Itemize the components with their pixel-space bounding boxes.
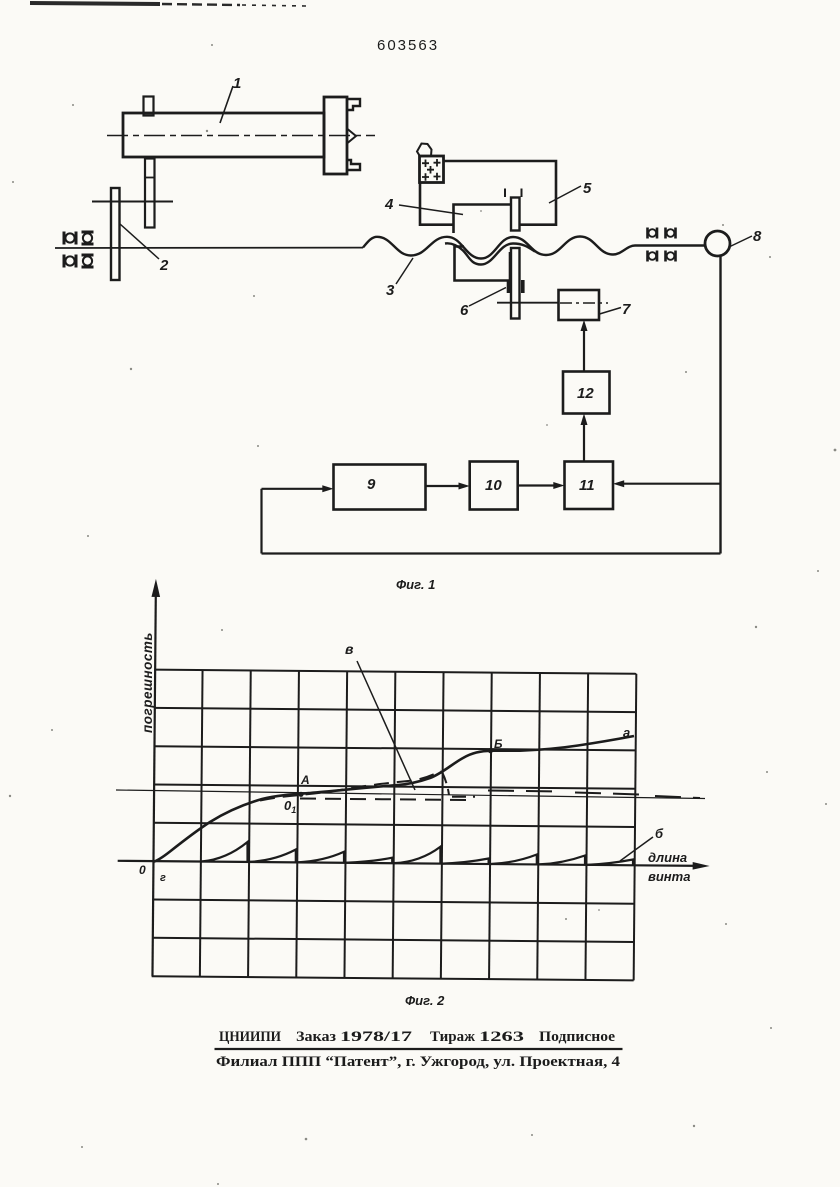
bearing L3 xyxy=(64,255,76,268)
label 6 leader xyxy=(469,288,506,307)
label 4 leader xyxy=(399,205,463,215)
feedback loop into 9 xyxy=(262,485,721,553)
scan artifact top line xyxy=(30,3,306,6)
cylinder 1 body xyxy=(123,113,324,157)
lower bar xyxy=(511,248,520,319)
tailstock center point xyxy=(348,129,357,143)
gear axis line xyxy=(92,201,173,203)
label 2 leader xyxy=(120,224,159,259)
svg-text:1263: 1263 xyxy=(479,1029,524,1045)
box 9 xyxy=(334,465,426,510)
svg-text:5: 5 xyxy=(583,180,592,197)
tooth 6 xyxy=(442,859,488,865)
label 7 leader xyxy=(600,308,622,315)
svg-text:603563: 603563 xyxy=(377,37,439,54)
spindle tick right xyxy=(521,189,523,198)
svg-text:б: б xyxy=(655,826,664,841)
grid xyxy=(152,670,637,981)
arrow 9 to 10 xyxy=(426,483,470,490)
svg-text:1978/17: 1978/17 xyxy=(340,1029,413,1045)
tooth 9 xyxy=(587,860,633,866)
circle 8 xyxy=(705,231,730,256)
element with plus marks xyxy=(420,156,444,183)
leader b xyxy=(620,837,653,861)
svg-text:7: 7 xyxy=(622,301,631,318)
block 7 centerline xyxy=(560,302,608,304)
thin reference line xyxy=(116,790,705,799)
tailstock top claw xyxy=(347,99,360,110)
screw double line section xyxy=(445,243,535,264)
line from circle 8 down xyxy=(719,256,721,554)
svg-text:А: А xyxy=(300,773,310,787)
flag on element xyxy=(417,144,432,157)
box numerals xyxy=(367,385,595,494)
dashed after drop xyxy=(452,796,475,798)
svg-text:8: 8 xyxy=(753,228,762,245)
svg-text:0: 0 xyxy=(139,863,146,877)
arrow 12 to 7 xyxy=(581,320,588,372)
svg-text:погрешность: погрешность xyxy=(140,632,155,733)
box 12 xyxy=(563,372,610,414)
curve a (solid S curve) xyxy=(153,736,634,862)
dot at O1 xyxy=(298,792,303,797)
arrow from line8 into 11 xyxy=(613,480,721,487)
tooth 2 xyxy=(250,850,296,863)
dot at B point xyxy=(488,748,493,753)
tailstock bottom claw xyxy=(347,160,360,170)
labels fig1 numerals xyxy=(159,75,762,319)
y axis with arrow xyxy=(148,579,160,976)
spindle tick left xyxy=(504,189,506,198)
nut tick right xyxy=(521,280,525,293)
circle 8 and right side xyxy=(648,228,753,554)
tooth 8 xyxy=(539,856,585,865)
bearing R4 xyxy=(666,251,676,262)
imprint line 1 xyxy=(219,1029,615,1045)
svg-text:длина: длина xyxy=(648,850,687,865)
svg-text:2: 2 xyxy=(159,257,169,274)
bearing L4 xyxy=(82,255,94,267)
tailstock block xyxy=(324,97,347,174)
bearing R1 xyxy=(648,228,658,239)
dashed curve v upper xyxy=(260,771,700,801)
svg-text:Тираж: Тираж xyxy=(430,1029,475,1045)
svg-text:Подписное: Подписное xyxy=(539,1029,615,1045)
central mechanism xyxy=(399,144,621,321)
tooth 4 xyxy=(346,858,392,863)
bearings left xyxy=(64,232,94,268)
dashed lower line xyxy=(300,799,470,801)
tooth 1 xyxy=(202,842,248,862)
box 11 xyxy=(565,462,614,510)
svg-text:6: 6 xyxy=(460,302,469,319)
left shaft line xyxy=(55,247,363,249)
arrow 10 to 11 xyxy=(518,482,565,489)
svg-text:10: 10 xyxy=(485,477,502,494)
block 4 follower xyxy=(454,205,512,234)
support bar lower part xyxy=(145,159,155,228)
svg-text:Заказ: Заказ xyxy=(296,1029,336,1045)
svg-text:Б: Б xyxy=(494,737,503,751)
tooth 7 xyxy=(491,855,537,865)
bearing L2 xyxy=(82,232,94,244)
plus marks xyxy=(422,159,441,181)
x axis with arrow xyxy=(118,857,710,870)
dashed right section xyxy=(488,791,700,799)
label 5 leader xyxy=(549,186,581,203)
spindle upper bar xyxy=(511,198,520,231)
label 3 leader xyxy=(396,258,413,284)
svg-text:9: 9 xyxy=(367,476,376,493)
box 5 outline xyxy=(444,161,557,225)
svg-text:в: в xyxy=(345,641,354,657)
box 10 xyxy=(470,462,518,510)
sawtooth curve b xyxy=(202,842,634,865)
svg-text:винта: винта xyxy=(648,869,690,884)
fig2 labels xyxy=(139,632,690,884)
bearing R2 xyxy=(666,228,676,239)
block 6 follower xyxy=(455,247,511,281)
nut tick left xyxy=(507,280,511,293)
dashed drop xyxy=(442,772,449,795)
imprint rule xyxy=(215,1048,623,1050)
leader v xyxy=(357,661,415,790)
arrow 11 to 12 xyxy=(581,414,588,462)
svg-text:Фиг. 2: Фиг. 2 xyxy=(405,993,445,1008)
svg-text:Фиг. 1: Фиг. 1 xyxy=(396,577,435,592)
label 1 leader xyxy=(220,86,233,123)
svg-text:3: 3 xyxy=(386,282,395,299)
cylinder 1 centerline xyxy=(107,135,375,137)
tooth 3 xyxy=(298,852,344,863)
svg-text:4: 4 xyxy=(384,196,394,213)
bearing R3 xyxy=(648,251,658,262)
label 8 leader xyxy=(729,236,752,247)
disc 2 xyxy=(111,188,120,280)
svg-text:а: а xyxy=(623,725,630,740)
svg-text:г: г xyxy=(160,872,166,884)
bearing L1 xyxy=(64,232,76,245)
block scheme 9-12 xyxy=(334,372,614,510)
svg-text:11: 11 xyxy=(579,477,595,494)
tooth 5 xyxy=(394,847,440,864)
block 7 xyxy=(559,290,600,320)
svg-text:1: 1 xyxy=(233,75,241,92)
screw wavy line 3 xyxy=(363,237,704,285)
support bar upper stub xyxy=(144,97,154,116)
svg-text:Филиал ППП “Патент”, г. Ужгоро: Филиал ППП “Патент”, г. Ужгород, ул. Про… xyxy=(216,1054,621,1070)
svg-text:12: 12 xyxy=(577,385,594,402)
svg-text:ЦНИИПИ: ЦНИИПИ xyxy=(219,1029,281,1045)
axis line of 7 xyxy=(497,302,559,304)
